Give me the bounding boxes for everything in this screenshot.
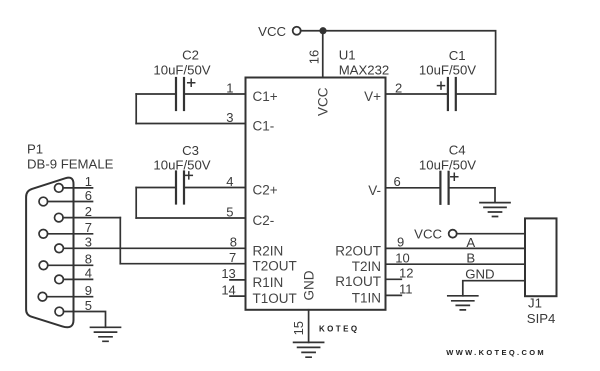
svg-text:10uF/50V: 10uF/50V — [419, 63, 476, 78]
U1 inner label VCC (rotated) — [316, 87, 331, 116]
wire pin 7 row (T2OUT) — [120, 263, 245, 265]
P1 pin number 3 — [85, 235, 92, 250]
wire VCC circle to junction — [301, 30, 323, 32]
VCC net label (top) — [258, 24, 286, 39]
svg-text:10: 10 — [395, 251, 409, 266]
VCC net label (SIP) — [414, 226, 442, 241]
svg-text:MAX232: MAX232 — [339, 63, 390, 78]
VCC open terminal circle (SIP) — [449, 230, 457, 238]
svg-text:C2-: C2- — [253, 213, 275, 228]
pin number 15 (rotated) — [291, 321, 306, 335]
wire P1 pin 8 stub — [48, 264, 93, 266]
svg-text:7: 7 — [85, 220, 92, 235]
svg-text:12: 12 — [399, 266, 413, 281]
C2 polarity + — [188, 79, 195, 86]
pin number 6 — [394, 174, 401, 189]
wire pin 10 row (T2IN) to SIP B — [386, 263, 526, 265]
U1 pin label R2IN — [253, 243, 284, 258]
P1 pin number 6 — [85, 188, 92, 203]
svg-text:4: 4 — [85, 266, 92, 281]
node label GND — [465, 267, 494, 282]
svg-text:9: 9 — [85, 283, 92, 298]
svg-text:VCC: VCC — [258, 24, 286, 39]
svg-text:R1IN: R1IN — [253, 275, 284, 290]
svg-text:A: A — [466, 235, 475, 250]
U1 value MAX232 — [339, 63, 390, 78]
svg-text:13: 13 — [221, 266, 235, 281]
pin number 13 — [221, 266, 235, 281]
U1 pin label C1- — [253, 119, 275, 134]
P1 pin number 1 — [85, 174, 92, 189]
svg-text:5: 5 — [85, 298, 92, 313]
U1 inner label GND (rotated) — [302, 270, 317, 300]
svg-text:GND: GND — [302, 270, 317, 300]
svg-text:6: 6 — [85, 188, 92, 203]
C1 value 10uF/50V — [419, 63, 476, 78]
svg-text:R1OUT: R1OUT — [335, 274, 381, 289]
wire pin 4 row (C2+) — [136, 187, 175, 189]
ground (P1 pin 5) — [91, 327, 121, 341]
svg-text:T2IN: T2IN — [352, 259, 381, 274]
P1 pin 5 hole — [55, 307, 64, 316]
pin number 14 — [221, 282, 235, 297]
capacitor C2 — [175, 78, 177, 110]
C3 value 10uF/50V — [153, 157, 210, 172]
svg-text:T1OUT: T1OUT — [253, 291, 297, 306]
svg-text:7: 7 — [229, 250, 236, 265]
svg-text:10uF/50V: 10uF/50V — [153, 63, 210, 78]
pin number 7 — [229, 250, 236, 265]
P1 pin 1 hole — [55, 184, 64, 193]
pin number 8 — [230, 235, 237, 250]
P1 pin 8 hole — [39, 261, 48, 270]
pin number 12 — [399, 266, 413, 281]
svg-text:B: B — [466, 250, 475, 265]
svg-text:WWW.KOTEQ.COM: WWW.KOTEQ.COM — [446, 348, 546, 357]
svg-text:4: 4 — [226, 174, 233, 189]
VCC open terminal circle — [293, 27, 301, 35]
capacitor C3 — [175, 172, 177, 204]
svg-text:10uF/50V: 10uF/50V — [419, 157, 476, 172]
capacitor C1 — [447, 78, 449, 110]
svg-text:3: 3 — [226, 110, 233, 125]
svg-text:C2: C2 — [182, 47, 199, 62]
P1 pin number 5 — [85, 298, 92, 313]
svg-text:V-: V- — [368, 183, 381, 198]
U1 pin label C1+ — [253, 89, 278, 104]
J1 value SIP4 — [527, 311, 556, 326]
svg-text:C1+: C1+ — [253, 89, 278, 104]
P1 pin 6 hole — [39, 197, 48, 206]
P1 reference designator — [27, 142, 43, 157]
wire VCC to SIP pin1 — [457, 233, 525, 235]
P1 pin number 9 — [85, 283, 92, 298]
svg-text:R2IN: R2IN — [253, 243, 284, 258]
wire P1 pin 1 stub — [63, 187, 92, 189]
svg-text:SIP4: SIP4 — [527, 311, 556, 326]
svg-text:10uF/50V: 10uF/50V — [153, 157, 210, 172]
svg-text:8: 8 — [85, 252, 92, 267]
svg-text:2: 2 — [395, 80, 402, 95]
U1 pin label V+ — [364, 89, 381, 104]
svg-text:P1: P1 — [27, 142, 43, 157]
U1 pin label T1IN — [352, 290, 381, 305]
wire pin 16 vertical — [322, 31, 324, 78]
node label A — [466, 235, 475, 250]
capacitor C4 — [439, 172, 441, 204]
pin number 16 (rotated) — [307, 50, 322, 64]
wire pin 15 vertical — [308, 310, 310, 343]
pin number 10 — [395, 251, 409, 266]
P1 pin number 7 — [85, 220, 92, 235]
pin number 3 — [226, 110, 233, 125]
ground (C4) — [480, 203, 510, 217]
WWW.KOTEQ.COM footer text — [446, 348, 546, 357]
svg-text:C3: C3 — [182, 143, 199, 158]
svg-text:J1: J1 — [528, 296, 542, 311]
C3 polarity + — [185, 172, 192, 179]
svg-text:8: 8 — [230, 235, 237, 250]
P1 pin 2 hole — [55, 213, 64, 222]
svg-text:U1: U1 — [339, 48, 356, 63]
pin number 5 — [226, 204, 233, 219]
svg-text:VCC: VCC — [316, 87, 331, 116]
svg-text:11: 11 — [399, 282, 413, 297]
U1 pin label R1IN — [253, 275, 284, 290]
pin number 1 — [226, 80, 233, 95]
U1 pin label C2+ — [253, 183, 278, 198]
wire pin 11 stub (T1IN) — [386, 294, 402, 296]
wire pin 3 row (C1-) — [136, 123, 245, 125]
svg-text:VCC: VCC — [414, 226, 442, 241]
wire P1 pin 2 to T2OUT — [63, 217, 120, 219]
svg-text:5: 5 — [226, 204, 233, 219]
C2 designator — [182, 47, 199, 62]
U1 pin label R2OUT — [335, 243, 381, 258]
svg-text:KOTEQ: KOTEQ — [319, 325, 359, 334]
U1 reference designator — [339, 48, 356, 63]
U1 pin label V- — [368, 183, 381, 198]
wire pin 13 stub (R1IN) — [230, 279, 246, 281]
pin number 4 — [226, 174, 233, 189]
wire P1 pin 7 stub — [48, 233, 93, 235]
U1 pin label C2- — [253, 213, 275, 228]
P1 value DB-9 FEMALE — [27, 156, 114, 171]
C1 designator — [449, 48, 466, 63]
op-amp U1 MAX232 IC body — [246, 78, 386, 310]
wire pin 14 stub (T1OUT) — [230, 295, 246, 297]
wire pin 6 row (V-) — [386, 187, 440, 189]
svg-text:14: 14 — [221, 282, 235, 297]
U1 pin label T2IN — [352, 259, 381, 274]
C1 polarity + — [438, 82, 445, 89]
C2 value 10uF/50V — [153, 63, 210, 78]
U1 pin label T2OUT — [253, 259, 297, 274]
wire VCC rail top to right — [323, 31, 496, 94]
U1 pin label R1OUT — [335, 274, 381, 289]
pin number 9 — [397, 235, 404, 250]
wire pin 2 row (V+) — [386, 93, 447, 95]
node junction dot (VCC rail) — [319, 27, 326, 34]
svg-text:DB-9 FEMALE: DB-9 FEMALE — [27, 156, 114, 171]
svg-text:GND: GND — [465, 267, 494, 282]
svg-text:16: 16 — [307, 50, 322, 64]
wire DB9 pin2 to T2OUT vertical — [119, 218, 121, 264]
connector P1 DB-9 body — [26, 178, 73, 328]
svg-text:6: 6 — [394, 174, 401, 189]
svg-text:1: 1 — [226, 80, 233, 95]
C4 designator — [449, 142, 466, 157]
pin number 2 — [395, 80, 402, 95]
wire pin 8 row (R2IN) from DB9 pin 3 — [63, 247, 245, 249]
wire C3 left vertical — [135, 188, 137, 219]
svg-text:3: 3 — [85, 235, 92, 250]
svg-text:15: 15 — [291, 321, 306, 335]
svg-text:C1: C1 — [449, 48, 466, 63]
wire C4 to ground — [494, 188, 496, 203]
svg-text:C2+: C2+ — [253, 183, 278, 198]
wire pin 12 stub (R1OUT) — [386, 278, 402, 280]
wire pin 5 row (C2-) — [136, 217, 245, 219]
node label B — [466, 250, 475, 265]
P1 pin 3 hole — [55, 244, 64, 253]
U1 pin label T1OUT — [253, 291, 297, 306]
svg-text:V+: V+ — [364, 89, 381, 104]
connector J1 SIP4 body — [525, 218, 557, 296]
wire SIP GND to ground — [463, 281, 525, 296]
J1 reference designator — [528, 296, 542, 311]
wire P1 pin 6 stub — [48, 201, 93, 203]
ground (SIP GND) — [448, 296, 478, 310]
pin number 11 — [399, 282, 413, 297]
P1 pin 7 hole — [39, 230, 48, 239]
P1 pin 4 hole — [55, 275, 64, 284]
svg-text:T2OUT: T2OUT — [253, 259, 297, 274]
svg-text:C4: C4 — [449, 142, 466, 157]
svg-text:2: 2 — [85, 204, 92, 219]
KOTEQ logo text — [319, 325, 359, 334]
P1 pin number 8 — [85, 252, 92, 267]
svg-text:C1-: C1- — [253, 119, 275, 134]
C4 polarity + — [451, 173, 458, 180]
ground (pin 15) — [294, 342, 324, 357]
svg-text:R2OUT: R2OUT — [335, 243, 381, 258]
wire pin 9 row (R2OUT) to SIP A — [386, 247, 526, 249]
C4 value 10uF/50V — [419, 157, 476, 172]
P1 pin 9 hole — [38, 292, 47, 301]
wire P1 pin 9 stub — [47, 296, 93, 298]
svg-text:9: 9 — [397, 235, 404, 250]
P1 pin number 2 — [85, 204, 92, 219]
wire C2 left vertical — [135, 94, 137, 124]
svg-text:T1IN: T1IN — [352, 290, 381, 305]
P1 pin number 4 — [85, 266, 92, 281]
wire pin 1 row (C1+) — [136, 93, 175, 95]
wire P1 pin 4 stub — [63, 278, 92, 280]
C3 designator — [182, 143, 199, 158]
wire P1 pin 5 to ground — [64, 312, 106, 328]
